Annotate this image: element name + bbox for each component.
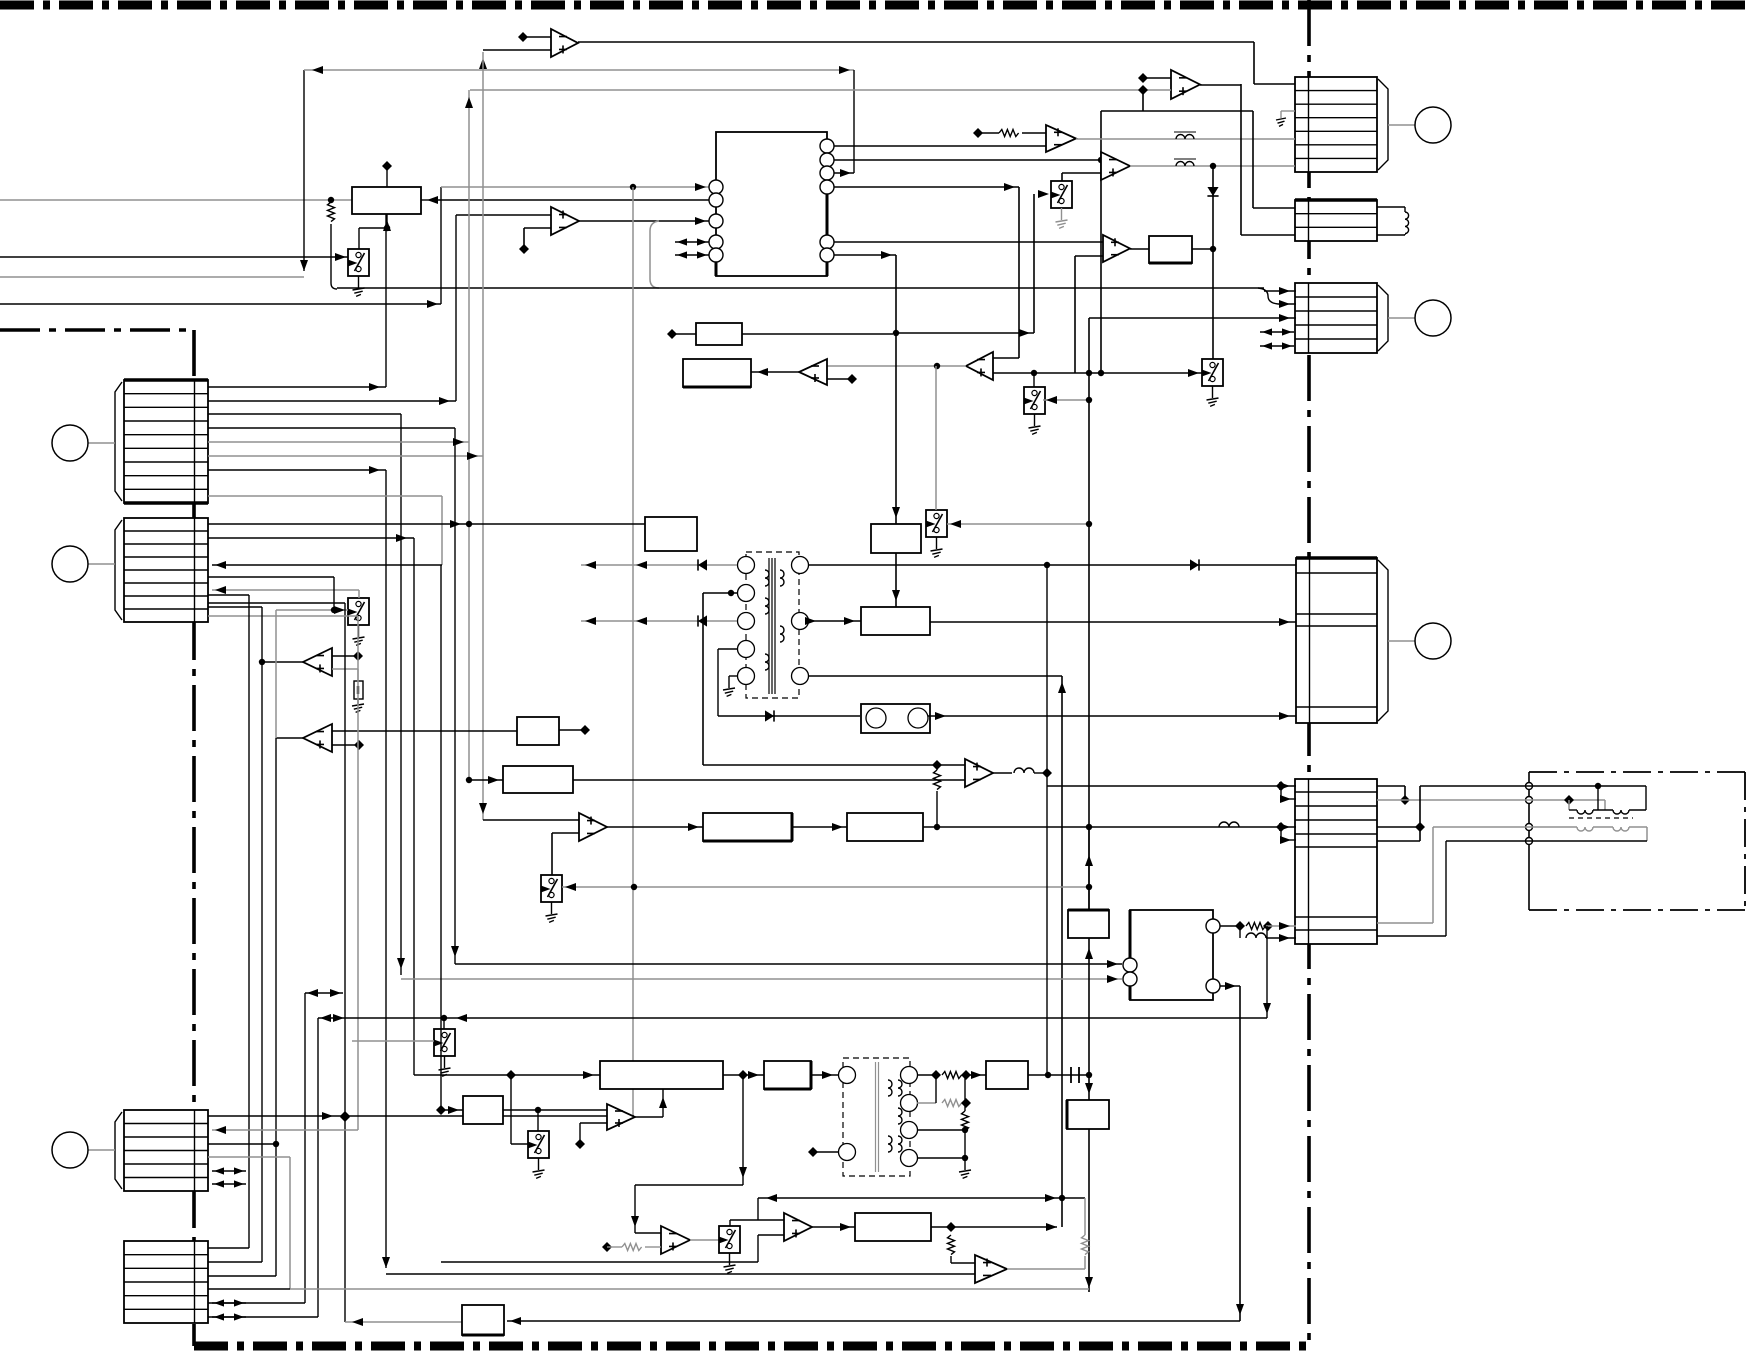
gray loop y827: [1433, 827, 1647, 841]
block S: [1067, 1100, 1109, 1129]
power tap above B1: [382, 161, 392, 187]
op-amp V: [975, 1255, 1007, 1283]
gray wire into CN-1 y=166: [0, 0, 1, 1]
wire into SW-F gray: [1043, 396, 1092, 404]
op-amp B2: [1046, 125, 1076, 152]
wire T2 R3: [917, 1127, 968, 1133]
wire A3+ input: [1143, 89, 1171, 91]
vertical x=1089 upper: [1088, 318, 1090, 910]
wire T2 R4: [917, 1155, 968, 1161]
gray long y=1289: [290, 1288, 1089, 1290]
CN-1 ground stub: [1276, 111, 1295, 126]
op-amp H: [965, 759, 993, 787]
wire net y=200 gray: [0, 199, 352, 201]
wire C2 out gray: [1130, 163, 1295, 169]
black net y786: [1420, 783, 1646, 810]
border dash-dot top-left horizontal: [0, 328, 194, 332]
box K to 827 link: [1085, 827, 1093, 910]
block R: [986, 1061, 1028, 1089]
wire H0 out diamond: [559, 725, 590, 735]
wire B1p to N2: [208, 520, 645, 528]
wire O- input: [0, 0, 1, 1]
IC U1: [716, 132, 827, 276]
wire B2 out gray: [1076, 138, 1295, 140]
wire net y=277 gray: [0, 276, 304, 278]
wire G+ from x483: [479, 803, 579, 820]
wire H out: [993, 768, 1052, 778]
gray net y800: [1377, 795, 1605, 810]
block M2: [683, 359, 751, 387]
corner resistor to y=288: [0, 0, 1, 1]
wire U1 right pin3: [834, 169, 854, 177]
bidir marker CN-C5: [212, 1167, 246, 1174]
wire A2- elbow: [519, 228, 551, 254]
IC L right pins: [1206, 919, 1220, 993]
wire CN5 row1 joins gray: [1377, 786, 1410, 805]
connector CN-5: [1295, 779, 1377, 944]
diamond T0: [667, 329, 893, 339]
wire T1 R2 to L2 block: [805, 617, 861, 625]
wire O+ from y=1262: [441, 565, 784, 1262]
ferrite bead FB2: [1174, 159, 1196, 166]
wire B5 out: [503, 1107, 607, 1131]
block G2: [847, 813, 923, 841]
wire C2+ from switch B: [1062, 173, 1101, 181]
IC L left pins: [1123, 958, 1137, 986]
wire M1b out to M1: [635, 1089, 667, 1117]
block H1: [503, 766, 573, 793]
U1 right pin 1: [820, 139, 834, 153]
gray wire A5p: [208, 438, 469, 446]
switch SW-N2: [528, 1131, 549, 1178]
block K2: [871, 524, 921, 553]
wire A4p: [208, 427, 455, 429]
U1 right pin 2: [820, 153, 834, 167]
diode D1 vertical: [1207, 166, 1218, 360]
wire M2b to T2: [811, 1071, 838, 1079]
wire T2 R1: [917, 1070, 986, 1080]
vertical x=1089 lower: [1085, 1129, 1093, 1292]
gray wire A9p to CN-B: [208, 496, 442, 569]
U1 right pin 4: [820, 180, 834, 194]
wire P out: [931, 1222, 1057, 1232]
bidir marker CN-3 row5: [1260, 328, 1294, 335]
switch SW-A: [348, 249, 369, 296]
wire D2 out: [1130, 248, 1149, 250]
wire M- input: [635, 1232, 661, 1234]
vertical x=249: [208, 595, 249, 1248]
op-amp A3 top right: [1171, 70, 1200, 99]
riser black x1446: [1377, 841, 1446, 936]
rounded jog x=650: [650, 221, 659, 288]
block P: [855, 1213, 931, 1241]
wire net y=964 to IC L: [451, 428, 1122, 968]
vertical x=1034 to SW-F: [1033, 373, 1035, 387]
wire Q3+ diamond: [827, 374, 857, 384]
wire y=70 elbow: [304, 66, 854, 74]
op-amp D2: [1103, 235, 1130, 262]
connector CN-4: [1296, 558, 1451, 723]
wire CN-D6: [208, 1316, 318, 1318]
block M2b: [764, 1061, 811, 1089]
wire P2 out gray: [827, 363, 966, 369]
coil row y810: [1569, 810, 1646, 814]
connector CN-B: [52, 518, 208, 622]
wire O out to P: [812, 1223, 855, 1231]
elbow x=1254 into CN-1: [1254, 42, 1295, 84]
wire U1 right pin1: [834, 145, 854, 147]
wire x=896 to K2: [892, 333, 900, 524]
connector CN-A: [52, 380, 208, 503]
wire A1 output y=42: [578, 41, 1254, 43]
wire G2 out long y=827: [923, 822, 1296, 832]
wire A2 out to U1 pin3: [579, 217, 710, 225]
wire A2+ input: [456, 214, 551, 216]
wire T1 L2: [0, 0, 1, 1]
op-amp M: [661, 1226, 690, 1254]
wire into SW-B: [1038, 190, 1049, 198]
ferrite bead FB1: [1174, 132, 1196, 139]
gray wire into SW-I: [562, 883, 1092, 891]
bidir marker CN-3 row6: [1260, 342, 1294, 349]
wire K2 to L2: [892, 553, 900, 607]
gray vertical x=469: [465, 90, 473, 780]
wire B2- input: [854, 145, 1046, 147]
op-amp G: [579, 813, 607, 841]
wire box feed y=730 from x414: [0, 0, 1, 1]
wire ICL out1: [1220, 921, 1296, 931]
op-amp E left-pointing: [303, 648, 332, 676]
gray + node: [1138, 85, 1148, 111]
wire SW-A top to B1: [359, 214, 391, 249]
black riser x1420: [1377, 786, 1425, 841]
resistor to V+: [948, 1235, 976, 1263]
elbow ICL out1 coil: [1240, 926, 1296, 942]
transformer T1: [738, 552, 809, 698]
wire G- elbow: [552, 833, 579, 875]
wire SW-C top to CN-B: [212, 586, 359, 598]
wire T1 L1 gray: [581, 559, 737, 570]
arrow into B1 right: [421, 196, 438, 204]
wire E- diamond: [332, 651, 363, 661]
wire T2 R2 gray: [917, 1098, 971, 1108]
wire T1 R3 to x=1062: [808, 676, 1066, 693]
wire G out: [607, 823, 703, 831]
dash-dot box: [1529, 772, 1745, 910]
bidir marker y=1317: [212, 1313, 246, 1320]
wire U1 pin6 to switch B path: [834, 194, 1034, 337]
block T0 top: [696, 323, 742, 345]
vertical x=1062: [1061, 676, 1063, 1227]
wire U1 pin4 to x=1019: [834, 183, 1019, 358]
U1 left pin 5: [709, 248, 723, 262]
wire into SW-G: [993, 369, 1202, 377]
gray wire A6p: [208, 452, 483, 460]
wire E out: [259, 659, 303, 665]
block M1: [600, 1061, 723, 1089]
block L2: [861, 607, 930, 635]
op-amp Q3 left-pointing: [799, 359, 827, 385]
wire A3- input: [1138, 73, 1171, 83]
switch SW-F: [1024, 387, 1045, 434]
border dash-dot bottom edge: [194, 1342, 1309, 1351]
wire U1 pin2 to x=1101: [834, 111, 1104, 373]
wire to Q block: [507, 1304, 1244, 1325]
bracket CN-C4 to CN-D4: [208, 1157, 290, 1289]
elbow y=827 to 840: [1280, 827, 1296, 844]
wire into SW-A: [0, 253, 348, 261]
wire A7p to x=386: [208, 466, 386, 1268]
wire net y=288 long: [337, 287, 1296, 308]
wire A1+ from below: [479, 50, 551, 69]
U1 right pin 3: [820, 166, 834, 180]
wire net y=1018: [318, 1014, 1267, 1022]
wire G1-G2: [792, 823, 847, 831]
wire A2p: [208, 397, 456, 405]
wire to SW-N2: [511, 1075, 528, 1144]
block B5: [436, 1096, 503, 1124]
wire Q3 out to M2: [751, 368, 799, 376]
block Q: [462, 1305, 504, 1335]
block G1: [703, 813, 792, 841]
gray wire into CN-1 y=139: [0, 0, 1, 1]
wire into SW-H: [947, 520, 1092, 528]
switch SW-J: [352, 1018, 455, 1076]
vertical x=1089 mid: [1085, 938, 1093, 1100]
gray net y=979 to IC L: [401, 975, 1122, 983]
delay block B1: [352, 187, 421, 214]
U1 left pin 3: [709, 214, 723, 228]
gray bus y=90: [470, 89, 1143, 91]
U1 left pin 2: [709, 193, 723, 207]
U1 left pin 4: [709, 235, 723, 249]
wire A1-out down x=1241: [1241, 84, 1295, 235]
switch SW-B: [1051, 181, 1072, 228]
wire M1-M2b: [723, 1070, 764, 1080]
switch SW-C: [348, 598, 369, 645]
op-amp O: [784, 1213, 812, 1241]
wire C2- input: [0, 0, 1, 1]
wire E+ resistor: [332, 669, 364, 712]
connector CN-1: [1295, 77, 1451, 172]
wire B7p to x=345: [208, 603, 350, 1322]
wire B2p to x=414: [208, 534, 414, 1075]
vertical x=305: [208, 993, 305, 1303]
border dash-dot top edge: [0, 1, 1750, 10]
elbow y=786 to 799: [1280, 786, 1296, 803]
op-amp M1b: [607, 1104, 635, 1130]
vertical x=1267: [1263, 926, 1271, 1018]
op-amp P2 left-pointing: [966, 352, 993, 380]
T2 common vertical: [936, 1075, 971, 1178]
wire CN-C1: [208, 1111, 634, 1121]
junction x1048 y565: [1044, 562, 1050, 568]
wire T1 L3 gray: [581, 615, 737, 626]
wire B5p to x=334: [208, 577, 334, 610]
wire y=318 to CN-3: [1089, 314, 1296, 322]
wire L2 out to CN-4: [930, 618, 1296, 626]
feedthrough circles: [1526, 783, 1533, 845]
wire into H1: [469, 776, 503, 784]
border dash-dot right vertical: [1307, 0, 1311, 1346]
black return y841: [1446, 840, 1647, 842]
feedback line y=1198: [758, 1194, 1085, 1202]
switch SW-N: [719, 1226, 740, 1273]
border dash-dot left vertical: [192, 330, 196, 1346]
wire R out: [1028, 1067, 1089, 1083]
wire gray y=187 to U1 pin1: [441, 183, 710, 191]
wire M1b+ elbow: [575, 1123, 607, 1149]
switch SW-H: [926, 510, 947, 557]
dashed line y818: [1569, 817, 1633, 819]
riser gray x1433: [1377, 827, 1433, 923]
vertical x=441 to U1 pin1 net: [440, 187, 442, 304]
gray vertical x=483: [482, 52, 484, 820]
wire U1 pin5 to op-amp D+: [834, 241, 1103, 243]
input resistor B2: [973, 128, 1046, 138]
T2 left pin2 diamond: [808, 1147, 838, 1157]
bidir marker y=1303: [212, 1299, 246, 1306]
wire y=786 to CN-5: [1047, 781, 1296, 791]
wire D2- elbow: [1075, 256, 1103, 373]
vertical x=318: [317, 1018, 319, 1317]
resistor H+ to 827: [934, 765, 941, 827]
transformer T2: [839, 1058, 918, 1176]
gray wire to Q block: [345, 1318, 462, 1326]
resonator X1: [861, 704, 930, 733]
wire A3 output: [1200, 84, 1241, 86]
wire V- long: [382, 1257, 975, 1274]
U1 left pin 1: [709, 180, 723, 194]
vertical x=304 with arrow: [300, 70, 308, 271]
wire net y=304: [0, 300, 441, 308]
path x=743 down: [631, 1075, 747, 1233]
IC L: [1130, 910, 1213, 1000]
wire T1 L4 route: [718, 649, 860, 722]
gray wire B8p to x=358: [208, 616, 358, 1130]
wire SW-N top to O-: [730, 1198, 784, 1226]
connector CN-3: [1295, 283, 1451, 353]
vertical x=456: [455, 215, 457, 401]
op-amp C2: [1101, 152, 1130, 180]
wire ICL out2: [1220, 982, 1240, 1321]
op-amp A1: [551, 29, 578, 57]
resistor R1 vertical: [328, 200, 338, 289]
wire H- input: [466, 777, 965, 783]
wire B1 right to U1 pin2: [430, 199, 710, 201]
bidir marker CN-C6: [212, 1180, 246, 1187]
op-amp A2: [551, 207, 579, 235]
gray vertical x=633: [632, 187, 634, 1116]
wire A1p to B1 riser: [208, 214, 386, 391]
bracket CN-C3 to CN-D3: [208, 738, 279, 1276]
wire T1 L5 ground: [723, 676, 737, 696]
wire M+ resistor: [602, 1242, 661, 1252]
wire CN-C2 gray: [212, 1126, 358, 1134]
wire F out riser: [276, 610, 303, 738]
inductor loop on CN-2: [1377, 207, 1409, 235]
wire X1 out to CN-4: [928, 712, 1296, 720]
bidir stub x=305: [305, 989, 343, 997]
wire A3p to x=401: [208, 414, 405, 975]
connector CN-C: [52, 1110, 208, 1191]
U1 bidir arrows pin4: [675, 238, 709, 245]
bidir stub x=318: [320, 1014, 344, 1022]
block K: [1068, 910, 1109, 938]
wire T1 R1 long y=565: [808, 559, 1296, 570]
wire F- / box feed y=730: [332, 730, 517, 732]
vertical x=262: [208, 607, 262, 1262]
switch SW-G: [1202, 359, 1223, 406]
block H0: [517, 717, 559, 745]
op-amp F left-pointing: [303, 724, 332, 752]
wire M out: [690, 1239, 719, 1241]
U1 right pin 6: [820, 248, 834, 262]
wire T1-L2 to op-amp H route: [703, 590, 965, 770]
block B2x: [1149, 236, 1192, 263]
junction R1 top: [328, 197, 334, 203]
wire V out feedback: [1007, 1198, 1089, 1269]
wire into SW-C: [276, 606, 348, 614]
connector CN-D: [124, 1241, 208, 1323]
vertical x=854: [839, 66, 854, 173]
input diamond A1-: [518, 32, 551, 42]
connector CN-2: [1295, 200, 1377, 241]
switch SW-I: [541, 875, 562, 922]
U1 right pin 5: [820, 235, 834, 249]
wire B2x out: [1192, 246, 1216, 252]
wire y=111 to CN-2: [1101, 111, 1295, 208]
wire F+ diamond: [332, 740, 364, 750]
U1 bidir arrows pin5: [675, 251, 709, 258]
gray vertical x=936: [935, 366, 937, 510]
wire y=1075 into M1: [414, 1070, 600, 1080]
vertical x=1048 feedback: [1046, 565, 1048, 1075]
block N2: [645, 517, 697, 551]
